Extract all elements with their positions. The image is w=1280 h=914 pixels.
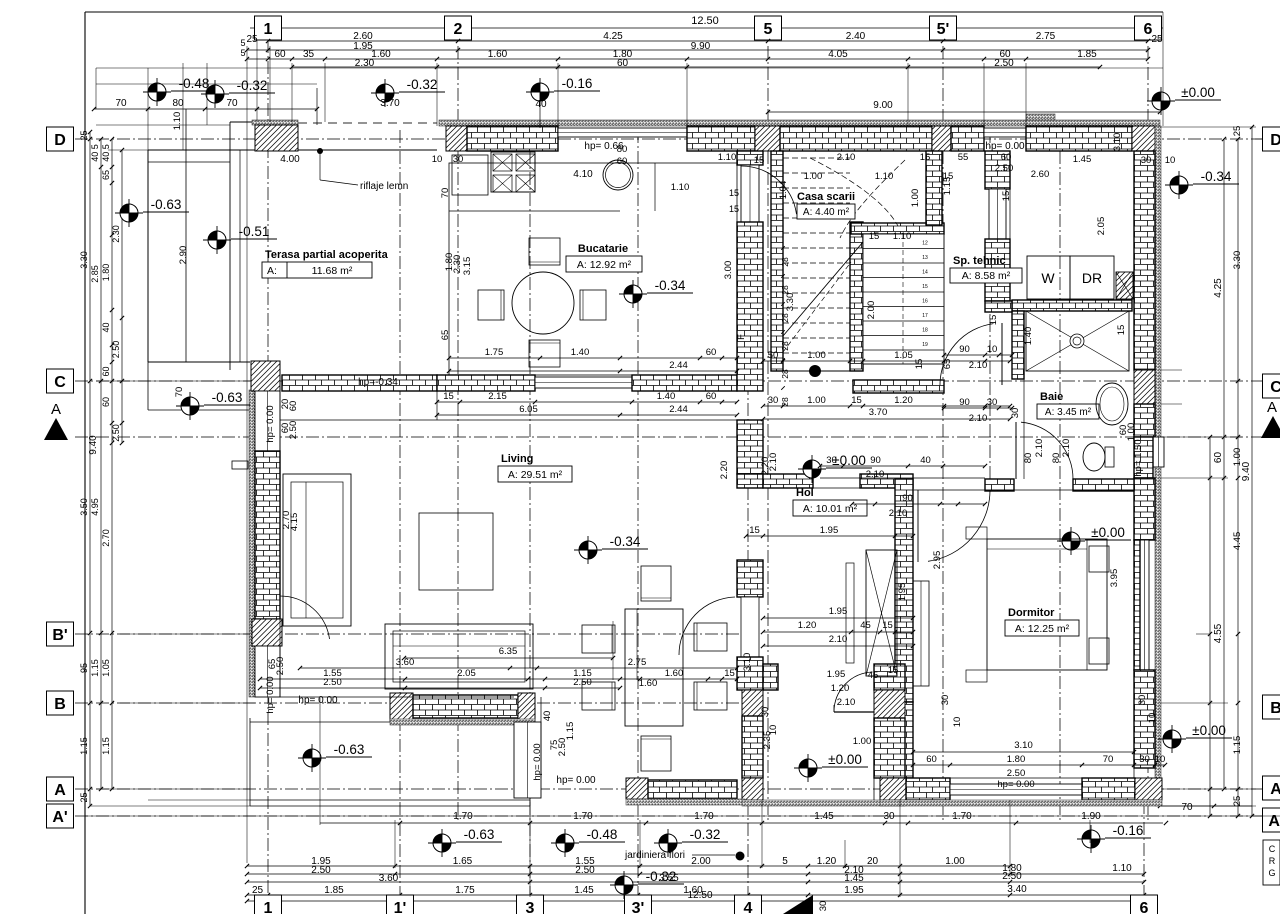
svg-text:±0.00: ±0.00	[828, 752, 862, 767]
svg-text:1.10: 1.10	[875, 171, 894, 182]
svg-text:2.50: 2.50	[323, 677, 342, 688]
svg-text:9.40: 9.40	[88, 435, 99, 455]
svg-text:D: D	[1270, 132, 1280, 149]
sp tehnic interior	[1009, 151, 1011, 300]
svg-text:-0.32: -0.32	[690, 827, 721, 842]
living square table	[419, 513, 493, 590]
svg-text:11.68 m²: 11.68 m²	[312, 265, 353, 277]
svg-text:60: 60	[617, 156, 628, 167]
svg-text:30: 30	[1137, 695, 1148, 706]
svg-text:15: 15	[749, 525, 760, 536]
svg-text:-0.63: -0.63	[334, 742, 365, 757]
svg-text:hp= 0.00: hp= 0.00	[532, 743, 543, 780]
svg-text:5: 5	[764, 21, 773, 38]
stair entry dot	[809, 365, 821, 377]
casa scarii top wall of flight	[851, 223, 944, 234]
svg-text:2.50: 2.50	[275, 657, 286, 676]
svg-text:15: 15	[888, 665, 899, 676]
svg-text:2.10: 2.10	[889, 508, 908, 519]
svg-text:1.85: 1.85	[324, 885, 344, 896]
svg-text:15: 15	[1001, 191, 1012, 202]
terasa lower slab part	[147, 362, 149, 410]
stair bottom wall	[853, 380, 944, 393]
svg-text:A: A	[51, 401, 61, 418]
svg-text:4.95: 4.95	[90, 498, 100, 516]
svg-text:1.45: 1.45	[574, 885, 594, 896]
svg-text:±0.00: ±0.00	[1091, 525, 1125, 540]
svg-text:hp= 0.00: hp= 0.00	[265, 405, 276, 442]
dining table	[625, 609, 683, 726]
svg-text:1.20: 1.20	[798, 620, 817, 631]
svg-text:4.55: 4.55	[1213, 623, 1224, 643]
svg-text:-0.63: -0.63	[212, 390, 243, 405]
casa scarii spine wall	[850, 222, 863, 371]
svg-text:25: 25	[246, 34, 258, 45]
baie sink	[1096, 383, 1128, 425]
svg-text:1.15: 1.15	[90, 659, 100, 677]
svg-text:±0.00: ±0.00	[1192, 723, 1226, 738]
svg-text:1.00: 1.00	[807, 350, 826, 361]
svg-text:95: 95	[79, 663, 89, 673]
svg-text:2.50: 2.50	[1007, 768, 1026, 779]
svg-text:3.70: 3.70	[869, 407, 888, 418]
top wall stipple strip	[439, 120, 1160, 126]
svg-text:45: 45	[868, 670, 879, 681]
svg-text:25: 25	[1232, 126, 1243, 137]
svg-text:1.10: 1.10	[172, 112, 183, 131]
svg-text:1.90: 1.90	[1081, 811, 1101, 822]
svg-text:70: 70	[115, 98, 127, 109]
bedroom bottom wall	[880, 778, 906, 800]
entry alcove floor edge	[742, 800, 905, 806]
svg-text:-0.63: -0.63	[151, 197, 182, 212]
svg-text:A: A	[1267, 399, 1277, 416]
svg-text:3.15: 3.15	[462, 257, 473, 276]
svg-text:2.50: 2.50	[995, 163, 1014, 174]
svg-text:1.80: 1.80	[101, 264, 111, 282]
svg-text:50: 50	[768, 350, 779, 361]
svg-text:hp=-0.34: hp=-0.34	[358, 377, 398, 388]
kitchen chairs	[529, 238, 560, 265]
svg-text:2.20: 2.20	[719, 461, 730, 480]
svg-text:1.60: 1.60	[371, 49, 391, 60]
top wall: brick right + corner pier	[1026, 126, 1132, 151]
top wall: brick + pier	[687, 126, 755, 151]
svg-text:1.95: 1.95	[353, 41, 373, 52]
svg-text:25: 25	[79, 792, 89, 802]
dormitor door	[928, 490, 990, 561]
casa scarii west wall	[771, 151, 783, 371]
baie door	[1021, 422, 1073, 479]
svg-text:15: 15	[920, 152, 931, 163]
svg-text:19: 19	[922, 342, 928, 348]
W DR appliances	[1027, 256, 1070, 299]
svg-text:3.10: 3.10	[1014, 740, 1033, 751]
svg-text:1.65: 1.65	[453, 856, 473, 867]
svg-text:B: B	[54, 696, 66, 713]
svg-text:hp= 0.00: hp= 0.00	[997, 779, 1034, 790]
svg-text:70: 70	[440, 188, 451, 199]
svg-text:-0.63: -0.63	[464, 827, 495, 842]
svg-text:10: 10	[987, 344, 998, 355]
svg-text:5: 5	[240, 38, 245, 48]
casa scarii bottom open edge	[783, 370, 850, 372]
svg-text:2.90: 2.90	[178, 246, 189, 265]
svg-text:10: 10	[952, 717, 963, 728]
svg-text:9.00: 9.00	[873, 100, 893, 111]
living west wall	[249, 390, 255, 697]
svg-text:hp= 0.00: hp= 0.00	[265, 676, 276, 713]
svg-text:80: 80	[617, 144, 628, 155]
svg-text:2.50: 2.50	[288, 421, 299, 440]
svg-text:2.05: 2.05	[457, 668, 476, 679]
svg-text:10: 10	[1165, 155, 1176, 166]
svg-text:5: 5	[782, 856, 788, 867]
svg-text:9.40: 9.40	[1241, 461, 1252, 481]
svg-text:A: A	[54, 782, 66, 799]
svg-text:2.10: 2.10	[829, 634, 848, 645]
stair arcs dashed	[810, 158, 898, 226]
svg-text:A: 29.51 m²: A: 29.51 m²	[508, 469, 563, 481]
title block corner bottom right	[1263, 840, 1280, 885]
svg-text:10: 10	[1155, 754, 1166, 765]
svg-text:A: 3.45 m²: A: 3.45 m²	[1045, 407, 1092, 418]
svg-text:30: 30	[987, 397, 998, 408]
svg-text:15: 15	[729, 188, 739, 198]
stair right flight	[863, 234, 944, 364]
svg-text:hp= 1.50: hp= 1.50	[1133, 439, 1144, 476]
svg-text:60: 60	[706, 347, 717, 358]
extension lines	[95, 68, 97, 109]
stair cut line	[783, 242, 863, 336]
svg-text:Terasa partial acoperita: Terasa partial acoperita	[265, 249, 389, 261]
svg-text:3': 3'	[632, 900, 645, 914]
entry direction triangle	[783, 895, 813, 914]
entry alcove left wall	[741, 694, 743, 696]
svg-text:3.00: 3.00	[723, 261, 734, 280]
svg-text:80: 80	[172, 98, 184, 109]
svg-text:40: 40	[542, 711, 553, 722]
svg-text:1.75: 1.75	[455, 885, 475, 896]
svg-text:2.10: 2.10	[768, 453, 779, 472]
svg-text:30: 30	[826, 455, 837, 466]
svg-text:30: 30	[883, 811, 895, 822]
kitchen interior outline	[449, 163, 737, 375]
svg-text:DR: DR	[1082, 270, 1102, 286]
svg-text:10: 10	[768, 725, 779, 736]
svg-text:jardiniera flori: jardiniera flori	[624, 850, 685, 861]
svg-text:6.35: 6.35	[499, 646, 518, 657]
svg-text:-0.34: -0.34	[1201, 169, 1232, 184]
svg-text:10: 10	[1147, 713, 1158, 724]
svg-text:70: 70	[1103, 754, 1114, 765]
svg-text:30: 30	[1010, 408, 1021, 419]
svg-text:2: 2	[454, 21, 463, 38]
svg-text:1.75: 1.75	[485, 347, 504, 358]
riflaje lemn leader	[317, 148, 323, 154]
svg-text:2.10: 2.10	[1034, 439, 1045, 458]
svg-text:1.04: 1.04	[778, 181, 789, 200]
svg-text:15: 15	[988, 315, 999, 326]
svg-text:1.40: 1.40	[657, 391, 676, 402]
svg-text:4.05: 4.05	[828, 49, 848, 60]
svg-text:40 5: 40 5	[101, 144, 111, 162]
svg-text:5: 5	[240, 48, 245, 58]
svg-text:4.45: 4.45	[1232, 532, 1243, 551]
svg-text:1.70: 1.70	[694, 811, 714, 822]
svg-text:15: 15	[869, 231, 880, 242]
bottom dimension chains	[320, 822, 1163, 824]
living sofa tall	[283, 474, 351, 626]
svg-text:6.05: 6.05	[519, 404, 538, 415]
svg-text:60: 60	[617, 58, 629, 69]
svg-text:80: 80	[1023, 453, 1034, 464]
top dimension chains	[250, 27, 1163, 29]
dormitor interior outline	[913, 490, 1134, 778]
svg-text:2.10: 2.10	[837, 152, 856, 163]
svg-text:C: C	[1269, 844, 1276, 854]
svg-text:1: 1	[264, 21, 273, 38]
svg-text:60: 60	[274, 49, 286, 60]
svg-text:A: 8.58 m²: A: 8.58 m²	[962, 270, 1011, 282]
svg-text:2.95: 2.95	[932, 551, 943, 570]
svg-text:60: 60	[101, 397, 111, 407]
svg-text:1.10: 1.10	[1112, 863, 1132, 874]
svg-text:1.40: 1.40	[1023, 327, 1034, 346]
svg-text:30: 30	[818, 901, 829, 912]
svg-text:2.30: 2.30	[355, 58, 375, 69]
svg-text:1.45: 1.45	[844, 873, 864, 884]
vertical grid lines 1 2 5 5p 6 and bottom 1p 3 3p 4	[267, 40, 269, 898]
svg-text:2.85: 2.85	[90, 265, 100, 283]
svg-text:30: 30	[760, 707, 771, 718]
svg-text:1.15: 1.15	[942, 177, 953, 196]
svg-text:1.15: 1.15	[79, 737, 89, 755]
svg-text:1.85: 1.85	[1077, 49, 1097, 60]
svg-text:B': B'	[52, 627, 67, 644]
svg-text:40: 40	[101, 322, 111, 332]
kitchen table round	[512, 272, 574, 334]
svg-text:1.10: 1.10	[718, 152, 737, 163]
svg-text:3.30: 3.30	[79, 251, 89, 269]
svg-text:70: 70	[174, 387, 185, 398]
entry door leaf	[834, 711, 874, 713]
svg-text:1.00: 1.00	[1126, 423, 1137, 442]
svg-text:3.40: 3.40	[1007, 884, 1027, 895]
svg-text:1.10: 1.10	[671, 182, 690, 193]
svg-text:±0.00: ±0.00	[1181, 85, 1215, 100]
svg-text:1: 1	[264, 900, 273, 914]
svg-text:3.30: 3.30	[1232, 251, 1243, 270]
svg-text:28: 28	[780, 257, 790, 267]
svg-text:40: 40	[535, 99, 547, 110]
dining bay west window	[514, 722, 541, 798]
svg-text:10: 10	[432, 154, 443, 165]
svg-text:28: 28	[780, 369, 790, 379]
svg-text:2.10: 2.10	[837, 697, 856, 708]
kitchen sink circle	[603, 160, 633, 190]
hol slim cabinet	[913, 581, 929, 686]
svg-text:90: 90	[870, 455, 881, 466]
svg-text:-0.32: -0.32	[407, 77, 438, 92]
entry alcove right wall	[874, 664, 905, 690]
bed	[987, 539, 1107, 670]
svg-text:A:: A:	[267, 265, 277, 277]
svg-text:1.95: 1.95	[820, 525, 839, 536]
svg-text:2.70: 2.70	[101, 529, 111, 547]
sp tehnic west wall (upper)	[985, 151, 1010, 189]
svg-text:-0.51: -0.51	[239, 224, 270, 239]
svg-text:40: 40	[920, 455, 931, 466]
hol south wall	[763, 664, 778, 690]
flue axis dash line	[1059, 130, 1061, 820]
svg-text:B: B	[1270, 700, 1280, 717]
svg-text:15: 15	[754, 155, 765, 166]
svg-text:90: 90	[959, 397, 970, 408]
svg-text:1.95: 1.95	[829, 606, 848, 617]
svg-text:1.95: 1.95	[897, 583, 908, 602]
door terasa-living	[280, 596, 330, 639]
svg-text:1.00: 1.00	[804, 171, 823, 182]
svg-text:65: 65	[440, 330, 451, 341]
hol wardrobe X	[866, 550, 897, 676]
svg-text:60: 60	[101, 366, 111, 376]
svg-text:3: 3	[526, 900, 535, 914]
svg-text:1.95: 1.95	[827, 669, 846, 680]
svg-text:30: 30	[1141, 155, 1152, 166]
svg-text:2.30: 2.30	[111, 225, 121, 243]
svg-text:25: 25	[252, 885, 264, 896]
living bottom wall	[390, 693, 413, 721]
dining chairs	[641, 566, 671, 601]
svg-text:3.60: 3.60	[396, 657, 415, 668]
svg-text:2.40: 2.40	[846, 31, 866, 42]
svg-text:R: R	[1269, 856, 1276, 866]
svg-text:4.15: 4.15	[289, 513, 300, 532]
top wall: kitchen window hp 0.66	[558, 128, 687, 137]
svg-text:15: 15	[914, 359, 925, 370]
right exterior wall	[1155, 126, 1161, 806]
top wall: brick segment kitchen left	[467, 126, 558, 151]
living interior outline	[279, 391, 281, 697]
svg-text:Bucatarie: Bucatarie	[578, 243, 628, 255]
svg-text:60: 60	[1001, 152, 1012, 163]
sheet border frame	[85, 11, 1163, 13]
svg-text:1.60: 1.60	[639, 678, 658, 689]
baie south wall	[985, 479, 1014, 491]
svg-text:2.60: 2.60	[1031, 169, 1050, 180]
svg-text:13: 13	[922, 255, 928, 261]
svg-text:30: 30	[768, 395, 779, 406]
hol north wall	[763, 474, 813, 488]
svg-text:1.70: 1.70	[573, 811, 593, 822]
right dimension chains	[1209, 437, 1211, 816]
svg-text:3.30: 3.30	[785, 293, 796, 312]
svg-text:2.50: 2.50	[311, 865, 331, 876]
svg-text:2.50: 2.50	[1002, 871, 1022, 882]
svg-text:30: 30	[940, 695, 951, 706]
top wall: pier	[446, 126, 467, 151]
svg-text:30: 30	[1139, 754, 1150, 765]
living sofa bottom	[385, 624, 533, 689]
svg-text:9.90: 9.90	[691, 41, 711, 52]
svg-text:60: 60	[926, 754, 937, 765]
svg-text:65: 65	[101, 170, 111, 180]
svg-text:Dormitor: Dormitor	[1008, 607, 1055, 619]
svg-text:15: 15	[443, 391, 454, 402]
door kitchen-casa scarii swing	[741, 166, 797, 214]
svg-text:4.10: 4.10	[573, 169, 593, 180]
svg-text:1.10: 1.10	[893, 231, 912, 242]
section line A-A	[75, 436, 1263, 438]
svg-text:12: 12	[922, 241, 928, 247]
svg-text:-0.32: -0.32	[646, 869, 677, 884]
svg-text:1.00: 1.00	[807, 395, 826, 406]
svg-text:2.50: 2.50	[994, 58, 1014, 69]
svg-text:4.25: 4.25	[1213, 278, 1224, 298]
grid row letter boxes	[47, 127, 74, 151]
bed corner squares	[966, 527, 987, 539]
svg-text:F: F	[736, 334, 747, 340]
terasa floor lower-left region	[249, 718, 251, 806]
svg-text:1.05: 1.05	[894, 350, 913, 361]
svg-text:2.50: 2.50	[573, 677, 592, 688]
svg-text:2.00: 2.00	[866, 301, 877, 320]
terasa slab outline	[148, 149, 437, 151]
svg-text:70: 70	[1181, 802, 1193, 813]
kitchen stove 4 burners	[491, 152, 535, 192]
svg-text:riflaje lemn: riflaje lemn	[360, 181, 408, 192]
landing east wall stub	[926, 151, 942, 225]
svg-text:2.50: 2.50	[111, 424, 121, 442]
svg-text:Hol: Hol	[796, 487, 814, 499]
svg-text:20: 20	[867, 856, 879, 867]
svg-text:16: 16	[922, 299, 928, 305]
svg-text:-0.34: -0.34	[655, 278, 686, 293]
dormitor window right	[1140, 540, 1149, 670]
svg-text:70: 70	[226, 98, 238, 109]
stair left flight dashes	[783, 157, 850, 159]
svg-text:A: 12.92 m²: A: 12.92 m²	[577, 259, 632, 271]
svg-text:-0.16: -0.16	[562, 76, 593, 91]
svg-text:Living: Living	[501, 453, 533, 465]
svg-text:2.50: 2.50	[575, 865, 595, 876]
svg-text:1.05: 1.05	[101, 659, 111, 677]
level markers	[148, 83, 166, 101]
svg-text:1.45: 1.45	[1073, 154, 1092, 165]
svg-text:25: 25	[1151, 34, 1163, 45]
svg-text:2.15: 2.15	[488, 391, 507, 402]
wc	[1083, 443, 1105, 471]
horizontal grid lines D C B' B A A'	[75, 138, 1263, 140]
svg-text:2.10: 2.10	[969, 360, 988, 371]
svg-text:2.44: 2.44	[669, 404, 688, 415]
svg-text:W: W	[1041, 270, 1055, 286]
svg-text:1': 1'	[394, 900, 407, 914]
70 80 70 line top-left	[94, 108, 317, 110]
svg-text:-0.48: -0.48	[587, 827, 618, 842]
svg-text:2.05: 2.05	[1096, 217, 1107, 236]
row C wall: kitchen bottom	[437, 375, 535, 391]
svg-text:28: 28	[780, 313, 790, 323]
central wall column x737	[737, 151, 763, 165]
svg-text:45: 45	[860, 620, 871, 631]
svg-text:3.10: 3.10	[742, 653, 753, 672]
svg-text:1.20: 1.20	[831, 683, 850, 694]
svg-text:A: 12.25 m²: A: 12.25 m²	[1015, 623, 1070, 635]
top wall: brick over casa scarii	[780, 126, 932, 151]
svg-text:1.15: 1.15	[1232, 736, 1243, 755]
